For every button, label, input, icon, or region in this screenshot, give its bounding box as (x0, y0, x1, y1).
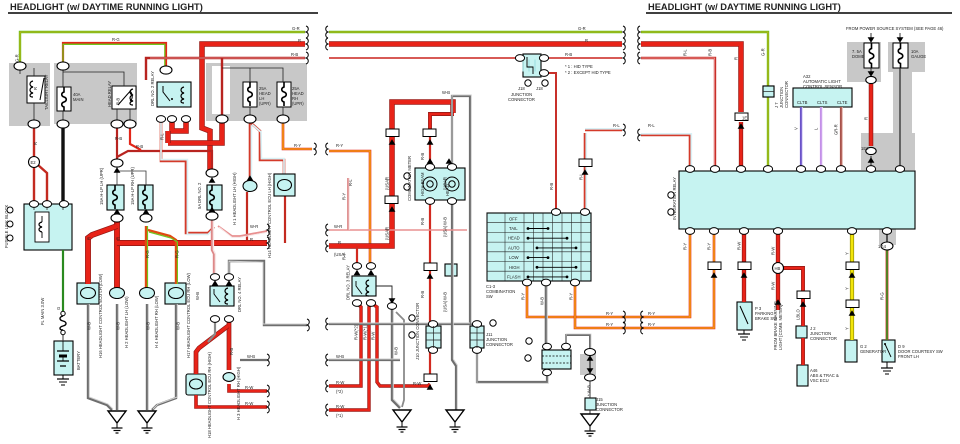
svg-text:AUTO: AUTO (508, 245, 520, 250)
svg-text:5A DRL NO. 2: 5A DRL NO. 2 (197, 182, 202, 209)
svg-text:R: R (734, 57, 739, 60)
svg-text:HIGH: HIGH (509, 265, 519, 270)
svg-text:V: V (794, 127, 799, 130)
svg-text:R-W: R-W (413, 381, 421, 386)
svg-text:* W-B: * W-B (587, 385, 592, 396)
svg-text:R-L: R-L (613, 123, 620, 128)
svg-text:OFF: OFF (509, 217, 518, 222)
svg-text:R-Y: R-Y (648, 322, 655, 327)
svg-text:W-B: W-B (176, 322, 181, 330)
svg-text:R-L: R-L (348, 179, 353, 186)
svg-text:H14 HEADLIGHT CONTROL ECU LH (: H14 HEADLIGHT CONTROL ECU LH (HIGH) (267, 172, 272, 258)
svg-text:Y: Y (845, 327, 850, 330)
svg-text:LOW: LOW (509, 255, 519, 260)
svg-text:W-R: W-R (334, 224, 342, 229)
svg-text:W-B: W-B (442, 90, 450, 95)
svg-text:R-Y: R-Y (294, 143, 301, 148)
svg-text:R-Y: R-Y (683, 243, 688, 250)
svg-text:R-Y: R-Y (342, 193, 347, 200)
svg-text:W-B: W-B (540, 297, 545, 305)
svg-text:R-Y: R-Y (606, 311, 613, 316)
svg-text:W-B: W-B (443, 292, 448, 300)
svg-text:COMBINATION METER: COMBINATION METER (407, 156, 412, 201)
svg-text:R-W(*2): R-W(*2) (354, 324, 359, 340)
svg-text:R-W: R-W (737, 242, 742, 250)
svg-text:R-B: R-B (420, 291, 425, 298)
svg-text:1E2: 1E2 (861, 146, 869, 151)
svg-text:(USA): (USA) (443, 300, 448, 312)
svg-text:H 1 HEADLIGHT LH (HIGH): H 1 HEADLIGHT LH (HIGH) (232, 172, 237, 225)
svg-text:(USA): (USA) (443, 225, 448, 237)
svg-text:CONNECTOR: CONNECTOR (810, 336, 837, 341)
svg-text:G-R: G-R (15, 54, 20, 62)
svg-text:R-B: R-B (420, 218, 425, 225)
svg-text:H17 HEADLIGHT CONTROL ECU RH (: H17 HEADLIGHT CONTROL ECU RH (LOW) (186, 272, 191, 358)
svg-text:CONTROL SENSOR: CONTROL SENSOR (803, 84, 842, 89)
svg-text:R-G: R-G (112, 37, 120, 42)
svg-text:HIGH BEAM: HIGH BEAM (420, 172, 425, 196)
svg-text:R-B: R-B (565, 52, 572, 57)
svg-text:H 4 HEADLIGHT RH (LOW): H 4 HEADLIGHT RH (LOW) (154, 295, 159, 348)
svg-text:(*1): (*1) (336, 413, 343, 418)
svg-text:CONNECTOR: CONNECTOR (486, 342, 513, 347)
svg-text:R-B: R-B (291, 52, 298, 57)
svg-text:R-L: R-L (160, 133, 165, 140)
svg-text:(USA): (USA) (385, 178, 390, 190)
svg-text:Y: Y (845, 287, 850, 290)
svg-text:R-Y: R-Y (342, 253, 347, 260)
svg-text:15A H-LP RH (UPR): 15A H-LP RH (UPR) (130, 167, 135, 205)
svg-text:TAIL: TAIL (509, 226, 518, 231)
svg-text:R-W: R-W (371, 332, 376, 340)
svg-text:R-W: R-W (336, 380, 344, 385)
svg-text:R: R (87, 237, 92, 240)
svg-text:J18: J18 (518, 86, 525, 91)
svg-text:H18 HEADLIGHT CONTROL ECU RH (: H18 HEADLIGHT CONTROL ECU RH (HIGH) (207, 352, 212, 438)
svg-text:J18: J18 (536, 86, 543, 91)
svg-text:R-W: R-W (245, 385, 253, 390)
svg-text:CLTE: CLTE (837, 100, 848, 105)
svg-text:H 3 HEADLIGHT RH (HIGH): H 3 HEADLIGHT RH (HIGH) (236, 366, 241, 420)
svg-text:CONNECTOR: CONNECTOR (596, 407, 623, 412)
svg-text:HEADLIGHT (w/ DAYTIME RUNNING: HEADLIGHT (w/ DAYTIME RUNNING LIGHT) (10, 2, 203, 12)
svg-text:GAUGE: GAUGE (911, 54, 926, 59)
svg-text:R-B: R-B (549, 183, 554, 190)
svg-text:HB: HB (775, 266, 781, 271)
svg-text:LBLO: LBLO (796, 309, 801, 320)
svg-text:H 2 HEADLIGHT LH (LOW): H 2 HEADLIGHT LH (LOW) (124, 296, 129, 348)
svg-text:W-B: W-B (247, 354, 255, 359)
svg-text:DOME: DOME (852, 54, 865, 59)
svg-text:R-B: R-B (420, 153, 425, 160)
svg-text:CONNECTOR: CONNECTOR (508, 97, 535, 102)
svg-text:CLTB: CLTB (797, 100, 808, 105)
svg-text:R: R (864, 117, 869, 120)
svg-text:CLTS: CLTS (817, 100, 828, 105)
svg-text:R: R (116, 237, 121, 240)
svg-text:W-B: W-B (87, 322, 92, 330)
svg-text:FL MAIN 3.0W: FL MAIN 3.0W (40, 298, 45, 325)
svg-text:W-B: W-B (116, 322, 121, 330)
svg-text:R-Y: R-Y (569, 293, 574, 300)
svg-text:R-L: R-L (683, 49, 688, 56)
svg-text:1E: 1E (742, 116, 747, 121)
svg-text:TAILLIGHT RELAY: TAILLIGHT RELAY (44, 74, 49, 110)
svg-text:(*2): (*2) (336, 389, 343, 394)
svg-text:HEAD: HEAD (508, 236, 520, 241)
svg-text:J10 JUNCTION CONNECTOR: J10 JUNCTION CONNECTOR (415, 303, 420, 360)
svg-text:R-G: R-G (880, 292, 885, 300)
svg-text:R-B: R-B (136, 144, 143, 149)
svg-text:W-B: W-B (195, 292, 200, 300)
svg-text:(UPR): (UPR) (292, 101, 304, 106)
svg-text:W-B: W-B (394, 347, 399, 355)
svg-text:R-B: R-B (115, 136, 122, 141)
svg-text:R-W: R-W (771, 282, 776, 290)
svg-text:R-Y: R-Y (606, 322, 613, 327)
svg-text:R-W: R-W (771, 247, 776, 255)
svg-text:R: R (298, 38, 301, 43)
svg-text:H16 HEADLIGHT CONTROL ECU LH (: H16 HEADLIGHT CONTROL ECU LH (LOW) (98, 273, 103, 358)
svg-text:INTEGRATION RELAY: INTEGRATION RELAY (672, 177, 677, 220)
svg-text:R-L: R-L (648, 123, 655, 128)
svg-text:DRL NO. 4 RELAY: DRL NO. 4 RELAY (237, 277, 242, 312)
svg-text:R: R (250, 237, 253, 242)
svg-text:HEAD RELAY: HEAD RELAY (107, 81, 112, 107)
svg-text:R-W: R-W (245, 401, 253, 406)
svg-text:G-R: G-R (761, 48, 766, 56)
svg-text:R-B: R-B (708, 49, 713, 56)
svg-text:FLASH: FLASH (507, 275, 521, 280)
svg-text:SW: SW (486, 294, 493, 299)
svg-text:R-Y: R-Y (336, 143, 343, 148)
svg-text:R-G: R-G (175, 250, 180, 258)
svg-text:* 1 : HID TYPE: * 1 : HID TYPE (565, 64, 593, 69)
svg-text:15A H-LP LH (UPR): 15A H-LP LH (UPR) (99, 167, 104, 205)
svg-text:FRONT LH: FRONT LH (898, 354, 919, 359)
svg-text:G-R: G-R (578, 26, 586, 31)
svg-text:R-Y: R-Y (707, 243, 712, 250)
svg-text:MAIN: MAIN (73, 97, 83, 102)
svg-text:R-Y: R-Y (521, 293, 526, 300)
svg-text:HEADLIGHT (w/ DAYTIME RUNNING: HEADLIGHT (w/ DAYTIME RUNNING LIGHT) (648, 2, 841, 12)
svg-text:(USA): (USA) (385, 228, 390, 240)
svg-text:LIGHT [COMB. METER]: LIGHT [COMB. METER] (778, 305, 783, 350)
svg-text:R-W(*1): R-W(*1) (363, 324, 368, 340)
svg-text:HEAD: HEAD (445, 184, 450, 196)
svg-text:DRL NO. 2 RELAY: DRL NO. 2 RELAY (150, 71, 155, 106)
svg-text:G-R: G-R (292, 26, 300, 31)
svg-text:* 2 : EXCEPT HID TYPE: * 2 : EXCEPT HID TYPE (565, 70, 611, 75)
svg-text:W-B: W-B (443, 217, 448, 225)
svg-text:R-B: R-B (116, 98, 121, 105)
svg-text:R: R (338, 240, 341, 245)
svg-text:DRL NO. 3 RELAY: DRL NO. 3 RELAY (346, 265, 351, 300)
svg-text:GR-R: GR-R (834, 124, 839, 135)
svg-text:R-W: R-W (336, 404, 344, 409)
svg-text:1G4: 1G4 (878, 244, 887, 249)
svg-text:G: G (56, 307, 61, 310)
svg-text:FROM POWER SOURCE SYSTEM (SEE: FROM POWER SOURCE SYSTEM (SEE PAGE 46) (846, 26, 944, 31)
svg-text:W-B: W-B (146, 322, 151, 330)
svg-text:E2: E2 (31, 160, 37, 165)
svg-text:VSC ECU: VSC ECU (810, 378, 829, 383)
svg-text:(UPR): (UPR) (259, 101, 271, 106)
svg-text:R-B: R-B (229, 348, 234, 355)
svg-text:BATTERY: BATTERY (76, 351, 81, 370)
svg-text:W-R: W-R (250, 224, 258, 229)
svg-text:R-G: R-G (145, 250, 150, 258)
svg-text:R-Y: R-Y (648, 311, 655, 316)
svg-text:GENERATOR: GENERATOR (860, 349, 886, 354)
svg-text:R: R (33, 142, 38, 145)
svg-text:R-L: R-L (579, 173, 584, 180)
svg-text:W-B: W-B (336, 354, 344, 359)
svg-text:R: R (585, 38, 588, 43)
svg-text:CONNECTOR: CONNECTOR (784, 81, 789, 108)
svg-text:Y: Y (845, 252, 850, 255)
svg-text:R: R (33, 87, 38, 90)
